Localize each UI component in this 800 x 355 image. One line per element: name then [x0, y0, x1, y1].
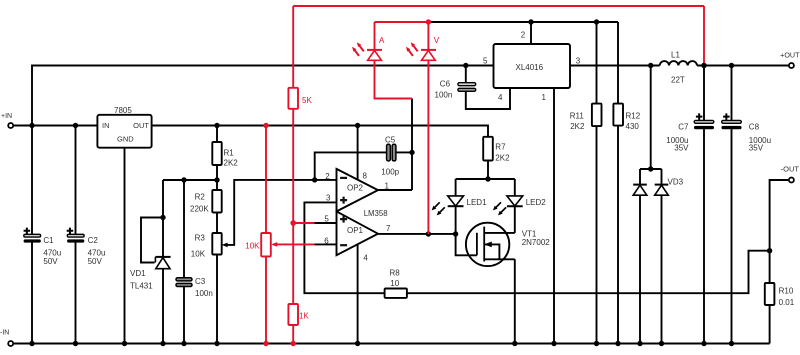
svg-text:7: 7 — [386, 224, 391, 233]
LED2 light rays — [496, 202, 501, 207]
wire R2 top lead — [216, 180, 218, 190]
svg-text:1: 1 — [385, 182, 390, 191]
transistor VT1 circle — [466, 223, 509, 266]
junction dot at L1 right (over red wire) — [701, 63, 706, 68]
diode VD3 left — [633, 185, 647, 195]
transistor VT1 source stub — [484, 258, 515, 260]
wire red top feedback line — [293, 5, 704, 7]
op-amp U1 OP2 triangle — [337, 169, 379, 212]
wire C2 top lead — [75, 126, 77, 235]
capacitor C5 plates — [387, 144, 391, 161]
wire LED1 anode lead — [455, 179, 457, 196]
transistor VT1 arrow head — [485, 242, 492, 247]
label C2 plus — [67, 228, 74, 234]
junction dots — [528, 19, 533, 24]
svg-text:LED1: LED1 — [467, 198, 488, 207]
resistor R8 — [385, 289, 407, 298]
label C8 plus — [723, 113, 730, 120]
wire VD3 diode1 bottom lead — [639, 195, 641, 343]
wire L1 to +OUT — [697, 65, 789, 67]
wire C8 top lead — [731, 66, 733, 121]
LED V ray heads — [411, 42, 415, 47]
wire op-amp pin1 output — [378, 189, 412, 191]
wire red pot bottom lead — [265, 257, 267, 344]
terminal -IN — [8, 341, 13, 346]
wire R3 bottom to ground rail — [216, 255, 218, 344]
wire XL4016 pin2 lead — [530, 22, 532, 44]
op-amp U1 OP1 triangle — [337, 211, 379, 255]
svg-text:LM358: LM358 — [364, 209, 388, 218]
svg-text:35V: 35V — [674, 143, 689, 152]
LED A ray heads — [263, 19, 706, 346]
wire R7 to LED split node — [487, 161, 489, 180]
diode LED2 — [507, 196, 523, 206]
resistor R1 — [212, 142, 221, 165]
wire XL4016 pin4 to C6 bottom — [466, 88, 510, 109]
wire 7805 GND to ground rail — [124, 148, 126, 344]
capacitor C1 plates — [24, 234, 41, 237]
wire VD3 split — [640, 168, 662, 170]
resistor 5K — [288, 88, 298, 109]
wire C7 bottom lead — [703, 129, 705, 343]
diode VD3 right — [655, 185, 669, 195]
svg-text:2: 2 — [325, 172, 330, 181]
wire LED2 anode lead — [514, 179, 516, 196]
svg-text:6: 6 — [324, 236, 329, 245]
diode LED A — [368, 51, 382, 61]
wire +IN riser and top +out rail to XL4016 pin5 — [32, 66, 494, 126]
svg-text:TL431: TL431 — [130, 282, 153, 291]
svg-text:10: 10 — [390, 279, 399, 288]
capacitor C7 plates — [694, 120, 714, 123]
wire VD3 diode2 bottom lead — [661, 195, 663, 343]
wire red pot wiper to pin6 — [273, 243, 315, 245]
svg-text:1: 1 — [542, 93, 547, 102]
svg-text:2K2: 2K2 — [224, 159, 239, 168]
svg-text:4: 4 — [363, 254, 368, 263]
wire C1 bottom lead — [31, 243, 33, 344]
wire R11 bottom to ground rail — [596, 126, 598, 343]
wire VD3 top lead — [650, 66, 652, 170]
svg-text:R8: R8 — [390, 269, 401, 278]
svg-text:2K2: 2K2 — [495, 154, 510, 163]
svg-text:35V: 35V — [749, 143, 764, 152]
R3 wiper arrow head — [222, 243, 228, 248]
wire C2 bottom lead — [75, 243, 77, 344]
wire VD3 diode1 top lead — [639, 169, 641, 185]
op-amp OP1 plus marker — [340, 216, 347, 223]
red junction dots — [426, 19, 431, 24]
svg-text:2: 2 — [521, 31, 526, 40]
resistor R7 — [483, 137, 493, 161]
wire LED A top lead — [374, 22, 376, 50]
svg-text:+OUT: +OUT — [780, 51, 800, 60]
IC 7805 box — [97, 115, 151, 148]
terminal -OUT — [789, 178, 794, 183]
svg-text:GND: GND — [117, 135, 134, 144]
svg-text:OUT: OUT — [133, 121, 149, 130]
wire C6 top lead — [465, 66, 467, 83]
wire LED1 cathode to gate node — [455, 206, 457, 234]
wire node A horizontal — [163, 179, 217, 181]
wire LED V top lead — [427, 22, 429, 50]
resistor R11 — [592, 104, 602, 127]
resistor 1K — [288, 304, 298, 325]
svg-text:C1: C1 — [43, 236, 54, 245]
capacitor C2 plates — [67, 234, 84, 237]
wire LED A node down to pin1 line — [411, 99, 413, 191]
wire LED A bottom to pin1 node — [375, 60, 413, 98]
wire C3 top lead — [183, 180, 185, 278]
wire C7 top lead — [703, 66, 705, 121]
inductor L1 — [660, 61, 697, 65]
wire 5K to 1K — [292, 109, 294, 304]
svg-text:A: A — [379, 36, 385, 45]
resistor R2 — [212, 190, 221, 213]
LED V light rays — [413, 45, 418, 51]
wire top feedback line black part — [428, 21, 618, 23]
wire op-amp pin4 to ground rail — [357, 244, 359, 344]
wire +IN to 7805 — [14, 125, 97, 127]
wire LED split — [456, 178, 515, 180]
svg-text:220K: 220K — [190, 205, 209, 214]
svg-text:2N7002: 2N7002 — [522, 238, 551, 247]
wire R3 wiper to op-amp pin2 — [224, 180, 337, 245]
svg-text:100p: 100p — [381, 168, 399, 177]
svg-text:R11: R11 — [570, 112, 585, 121]
svg-text:10K: 10K — [245, 242, 260, 251]
diode LED1 — [448, 196, 464, 206]
wire red 5K top lead — [292, 6, 294, 88]
capacitor C6 plates — [458, 83, 476, 86]
wire red pot top lead — [265, 126, 267, 234]
red pot wiper arrow head — [271, 242, 277, 247]
wire 1K bottom to ground rail — [292, 325, 294, 344]
wire C8 bottom lead — [731, 129, 733, 343]
wire R12 top lead — [617, 22, 619, 104]
transistor VT1 channel bar — [483, 227, 485, 262]
wire LED V bottom to pin7 line — [427, 60, 429, 234]
resistor R12 — [613, 104, 623, 126]
wire R11 top lead — [596, 22, 598, 104]
wire gate lead — [456, 234, 477, 255]
svg-text:R10: R10 — [779, 287, 794, 296]
svg-text:5K: 5K — [302, 96, 312, 105]
wire ground rail — [14, 343, 770, 345]
wire R12 bottom to ground rail — [617, 126, 619, 344]
svg-text:430: 430 — [626, 122, 640, 131]
svg-text:VD3: VD3 — [668, 178, 684, 187]
svg-text:3: 3 — [576, 57, 581, 66]
svg-text:100n: 100n — [195, 289, 213, 298]
svg-text:7805: 7805 — [114, 106, 132, 115]
wire 7805 OUT rail to R7 — [152, 126, 488, 137]
op-amp OP2 minus marker — [340, 177, 347, 179]
diode LED V — [422, 51, 436, 61]
LED1 light rays — [434, 202, 439, 207]
svg-text:C3: C3 — [195, 277, 206, 286]
svg-text:50V: 50V — [88, 257, 103, 266]
terminal +IN — [8, 123, 13, 128]
svg-text:R1: R1 — [224, 148, 235, 157]
wire R1 bottom lead — [216, 165, 218, 180]
svg-text:5: 5 — [483, 57, 488, 66]
svg-text:R3: R3 — [195, 234, 206, 243]
svg-text:OP1: OP1 — [347, 226, 364, 235]
svg-text:OP2: OP2 — [347, 184, 364, 193]
resistor R10 — [765, 283, 775, 305]
wire C5 right lead — [396, 151, 412, 153]
svg-text:LED2: LED2 — [526, 198, 547, 207]
wire VD3 diode2 top lead — [661, 169, 663, 185]
svg-text:R7: R7 — [495, 142, 506, 151]
LED2 ray heads — [493, 206, 498, 211]
svg-text:2K2: 2K2 — [570, 122, 585, 131]
IC XL4016 box — [494, 44, 571, 88]
wire pin6 black part — [315, 243, 337, 245]
label C7 plus — [696, 113, 703, 120]
svg-text:C8: C8 — [749, 123, 760, 132]
wire red feedback right drop — [703, 6, 705, 66]
wire C5 left lead — [315, 152, 387, 180]
label C1 plus — [24, 228, 31, 234]
wire R2 to R3 — [216, 213, 218, 234]
svg-text:10K: 10K — [191, 250, 206, 259]
TL431 VD1 symbol — [156, 258, 170, 269]
svg-text:+IN: +IN — [1, 113, 12, 120]
wire C3 bottom lead — [183, 286, 185, 343]
wire R10 top to -OUT — [770, 180, 789, 283]
svg-text:-OUT: -OUT — [781, 165, 800, 174]
svg-text:8: 8 — [363, 172, 368, 181]
wire R10 bottom lead — [769, 305, 771, 344]
terminal +OUT — [789, 63, 794, 68]
svg-text:1K: 1K — [299, 312, 309, 321]
svg-text:C7: C7 — [678, 123, 689, 132]
svg-text:3: 3 — [326, 193, 331, 202]
wire XL4016 pin3 to L1 — [570, 65, 660, 67]
wire op-amp pin3 to R8 — [304, 202, 384, 293]
svg-text:VD1: VD1 — [130, 269, 146, 278]
svg-text:50V: 50V — [43, 257, 58, 266]
wire VT1 source to ground rail — [514, 259, 516, 343]
svg-text:R12: R12 — [626, 112, 641, 121]
svg-text:0.01: 0.01 — [779, 298, 795, 307]
transistor VT1 gate bar — [476, 233, 478, 256]
wire op-amp pin7 output — [378, 233, 456, 235]
wire R1 top lead — [216, 126, 218, 143]
svg-text:C5: C5 — [385, 136, 396, 145]
op-amp OP2 plus marker — [340, 197, 347, 204]
LED1 ray heads — [432, 206, 437, 211]
capacitor C3 plates — [176, 278, 192, 281]
svg-text:IN: IN — [102, 121, 110, 130]
svg-text:-IN: -IN — [0, 330, 9, 337]
potentiometer 10K red — [261, 233, 271, 257]
wire red LED top link — [375, 21, 429, 23]
svg-text:L1: L1 — [671, 51, 680, 60]
wire R8 to R10 sense node — [407, 251, 770, 294]
svg-text:C6: C6 — [440, 80, 451, 89]
svg-text:R2: R2 — [195, 193, 206, 202]
wire VD1 cathode lead — [162, 180, 164, 257]
wire VD1 anode to ground rail — [162, 269, 164, 344]
LED A light rays — [359, 45, 364, 51]
capacitor C8 plates — [722, 120, 742, 123]
wire op-amp pin8 supply — [357, 126, 359, 180]
wire VD1 ref bracket — [141, 218, 163, 263]
transistor VT1 body stub with arrow — [484, 244, 499, 259]
svg-text:22T: 22T — [671, 76, 685, 85]
svg-text:4: 4 — [498, 93, 503, 102]
transistor VT1 drain stub — [484, 232, 515, 234]
resistor R3 (preset) — [212, 233, 221, 255]
wire C1 top lead — [31, 126, 33, 235]
wire red divider to pin5 — [293, 222, 314, 224]
wire XL4016 pin1 to ground rail — [553, 88, 555, 344]
svg-text:V: V — [434, 36, 440, 45]
wire pin5 black part — [315, 222, 337, 224]
svg-text:100n: 100n — [435, 90, 453, 99]
svg-text:5: 5 — [324, 214, 329, 223]
op-amp OP1 minus marker — [340, 244, 347, 246]
svg-text:XL4016: XL4016 — [516, 63, 544, 72]
wire LED2 cathode to drain — [514, 206, 516, 233]
svg-text:C2: C2 — [88, 236, 99, 245]
